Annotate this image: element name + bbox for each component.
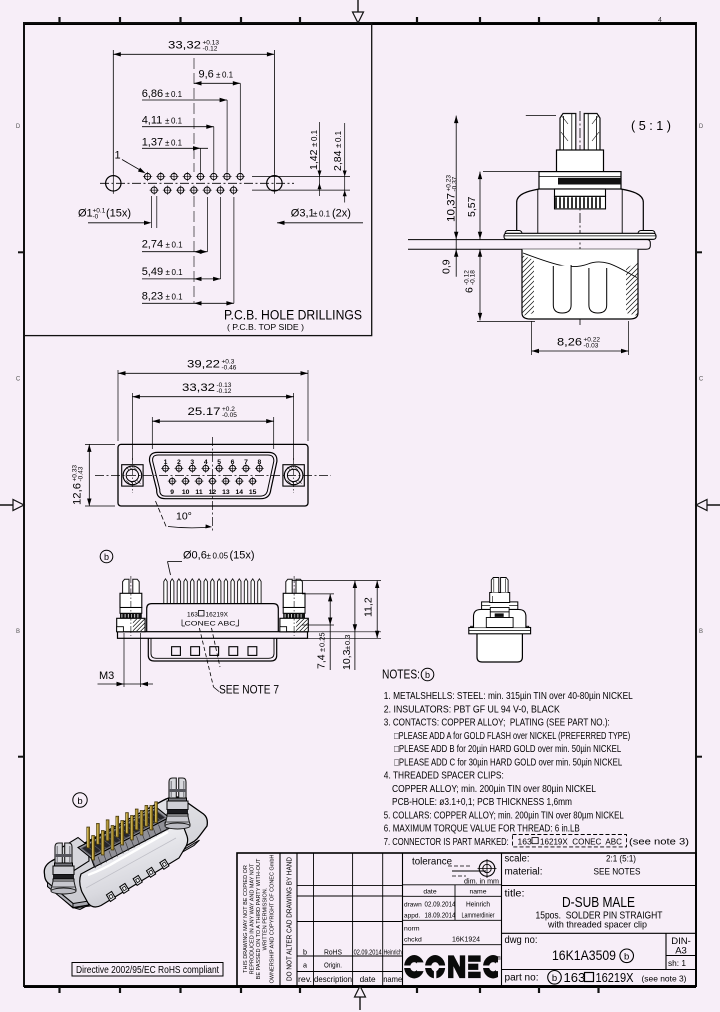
svg-text:±: ± — [207, 552, 212, 561]
svg-text:9: 9 — [170, 489, 174, 496]
svg-text:4: 4 — [658, 17, 662, 24]
svg-text:OWNERSHIP AND COPYRIGHT OF CON: OWNERSHIP AND COPYRIGHT OF CONEC GmbH — [270, 855, 276, 984]
svg-text:6: 6 — [231, 459, 235, 466]
svg-text:4,11: 4,11 — [142, 115, 163, 127]
svg-text:2,74: 2,74 — [142, 239, 163, 251]
svg-text:02.09.2014: 02.09.2014 — [354, 948, 382, 957]
svg-text:39,22: 39,22 — [187, 359, 220, 371]
svg-text:±: ± — [165, 90, 170, 99]
svg-text:1: 1 — [164, 459, 168, 466]
svg-text:A3: A3 — [675, 946, 687, 957]
svg-text:-0.46: -0.46 — [222, 364, 237, 371]
svg-text:15: 15 — [249, 489, 257, 496]
svg-text:25.17: 25.17 — [188, 406, 221, 418]
svg-text:(2x): (2x) — [332, 208, 351, 220]
svg-text:163: 163 — [518, 836, 532, 846]
svg-text:Lammerdinier: Lammerdinier — [462, 913, 496, 920]
svg-text:18.09.2014: 18.09.2014 — [425, 913, 456, 920]
svg-text:Heinrich: Heinrich — [384, 948, 402, 957]
svg-text:5,57: 5,57 — [466, 196, 478, 217]
svg-text:a: a — [303, 961, 307, 970]
svg-text:11,2: 11,2 — [363, 597, 375, 617]
svg-text:RoHS: RoHS — [324, 948, 342, 957]
svg-text:chckd: chckd — [404, 937, 422, 944]
svg-text:±: ± — [310, 142, 319, 147]
svg-text:□PLEASE ADD B for 20µin HARD G: □PLEASE ADD B for 20µin HARD GOLD over m… — [394, 744, 621, 755]
svg-text:14: 14 — [235, 489, 243, 496]
svg-text:title:: title: — [505, 889, 525, 900]
svg-text:0.1: 0.1 — [334, 130, 343, 142]
svg-text:13: 13 — [222, 489, 230, 496]
svg-text:±: ± — [166, 268, 171, 277]
svg-text:0.1: 0.1 — [172, 292, 184, 301]
svg-text:5: 5 — [217, 459, 221, 466]
svg-text:02.09.2014: 02.09.2014 — [425, 902, 456, 909]
svg-text:BE PASSED ON TO A THIRD PARTY: BE PASSED ON TO A THIRD PARTY WITH-OUT — [256, 858, 262, 979]
svg-text:163: 163 — [187, 612, 198, 619]
svg-text:dwg no:: dwg no: — [505, 935, 538, 946]
svg-text:-0.03: -0.03 — [584, 342, 599, 349]
svg-text:8,26: 8,26 — [557, 337, 582, 349]
svg-text:CONEC ABC: CONEC ABC — [185, 620, 236, 627]
svg-text:2: 2 — [177, 459, 181, 466]
svg-text:±: ± — [165, 139, 170, 148]
svg-text:drawn: drawn — [404, 902, 422, 909]
svg-text:6: 6 — [464, 287, 476, 293]
svg-text:10,37: 10,37 — [446, 193, 458, 222]
svg-text:5. COLLARS: COPPER ALLOY; min.: 5. COLLARS: COPPER ALLOY; min. 200µin TI… — [384, 810, 624, 821]
svg-text:date: date — [360, 974, 376, 984]
svg-text:±: ± — [166, 241, 171, 250]
svg-text:Origin.: Origin. — [324, 961, 342, 970]
svg-text:12: 12 — [209, 489, 217, 496]
svg-text:7: 7 — [244, 459, 248, 466]
svg-text:0,9: 0,9 — [441, 259, 453, 274]
svg-text:-0.43: -0.43 — [77, 466, 84, 481]
svg-text:C: C — [699, 377, 704, 383]
svg-text:16K1924: 16K1924 — [452, 937, 480, 944]
svg-text:±: ± — [343, 646, 352, 650]
svg-text:□PLEASE ADD C for 30µin HARD G: □PLEASE ADD C for 30µin HARD GOLD over m… — [394, 757, 622, 768]
svg-text:(see note 3): (see note 3) — [642, 975, 687, 984]
svg-text:0.1: 0.1 — [222, 71, 234, 80]
svg-text:12,6: 12,6 — [72, 483, 84, 505]
svg-text:0.25: 0.25 — [318, 632, 327, 647]
svg-text:®: ® — [497, 955, 501, 962]
svg-text:7,4: 7,4 — [316, 654, 328, 669]
svg-text:0.3: 0.3 — [343, 635, 352, 645]
svg-text:-0: -0 — [93, 213, 99, 220]
svg-text:±: ± — [318, 648, 327, 652]
svg-text:0.1: 0.1 — [310, 129, 319, 141]
svg-text:0.1: 0.1 — [171, 139, 183, 148]
svg-text:±: ± — [313, 210, 318, 219]
svg-text:THIS DRAWING MAY NOT BE COPIED: THIS DRAWING MAY NOT BE COPIED OR — [243, 865, 249, 973]
svg-text:10,3: 10,3 — [341, 649, 353, 670]
svg-text:name: name — [469, 889, 486, 896]
svg-text:B: B — [699, 629, 703, 635]
svg-text:b: b — [303, 948, 307, 957]
svg-text:33,32: 33,32 — [182, 382, 215, 394]
svg-text:0.1: 0.1 — [172, 241, 184, 250]
svg-text:-0.05: -0.05 — [222, 412, 237, 419]
svg-text:B: B — [16, 629, 20, 635]
svg-text:appd.: appd. — [404, 913, 420, 920]
svg-text:0.1: 0.1 — [171, 90, 183, 99]
svg-text:scale:: scale: — [505, 854, 530, 865]
svg-text:(15x): (15x) — [106, 208, 131, 220]
svg-text:NOTES:: NOTES: — [382, 667, 420, 682]
svg-text:2,84: 2,84 — [332, 150, 344, 171]
svg-text:Heinrich: Heinrich — [466, 902, 490, 909]
svg-text:-0.18: -0.18 — [469, 270, 476, 285]
svg-text:±: ± — [216, 71, 221, 80]
svg-text:Ø1: Ø1 — [78, 208, 93, 220]
svg-text:2. INSULATORS: PBT GF UL 94 V-: 2. INSULATORS: PBT GF UL 94 V-0, BLACK — [384, 704, 560, 715]
svg-text:b: b — [425, 670, 430, 680]
svg-text:9,6: 9,6 — [199, 69, 214, 81]
svg-text:part no:: part no: — [505, 973, 539, 984]
svg-text:3: 3 — [190, 459, 194, 466]
svg-text:date: date — [423, 889, 436, 896]
svg-text:16K1A3509: 16K1A3509 — [552, 948, 616, 963]
svg-text:4. THREADED SPACER CLIPS:: 4. THREADED SPACER CLIPS: — [384, 771, 504, 782]
svg-text:dim. in mm: dim. in mm — [464, 877, 499, 886]
svg-text:D: D — [16, 124, 21, 130]
svg-text:0.1: 0.1 — [319, 210, 331, 219]
svg-text:0.1: 0.1 — [171, 117, 183, 126]
svg-text:b: b — [624, 952, 629, 963]
svg-text:(see note 3): (see note 3) — [629, 837, 689, 847]
svg-text:11: 11 — [195, 489, 202, 496]
svg-text:6,86: 6,86 — [142, 88, 163, 100]
svg-text:163: 163 — [564, 970, 586, 985]
svg-text:8,23: 8,23 — [142, 290, 163, 302]
svg-text:33,32: 33,32 — [168, 40, 201, 52]
svg-text:±: ± — [165, 117, 170, 126]
svg-text:( P.C.B. TOP SIDE ): ( P.C.B. TOP SIDE ) — [227, 323, 304, 332]
svg-text:DO NOT ALTER CAD DRAWING BY HA: DO NOT ALTER CAD DRAWING BY HAND — [284, 857, 293, 981]
svg-text:2:1 (5:1): 2:1 (5:1) — [606, 854, 636, 864]
svg-text:C: C — [16, 377, 21, 383]
svg-text:±: ± — [166, 292, 171, 301]
svg-text:name: name — [383, 974, 402, 984]
svg-text:16219X: 16219X — [206, 612, 229, 619]
svg-text:0.05: 0.05 — [213, 552, 229, 561]
svg-text:10: 10 — [182, 489, 190, 496]
svg-text:1. METALSHELLS: STEEL: min. 31: 1. METALSHELLS: STEEL: min. 315µin TIN o… — [384, 691, 633, 702]
svg-text:rev.: rev. — [298, 974, 312, 984]
svg-text:norm: norm — [404, 926, 420, 933]
svg-text:WRITTEN PERMISSION.: WRITTEN PERMISSION. — [263, 887, 269, 950]
svg-text:tolerance: tolerance — [412, 856, 452, 868]
svg-text:16219X CONEC ABC: 16219X CONEC ABC — [540, 836, 622, 846]
svg-text:b: b — [104, 552, 109, 562]
svg-text:5,49: 5,49 — [142, 266, 163, 278]
svg-text:M3: M3 — [99, 670, 114, 682]
svg-text:COPPER ALLOY; min. 200µin TIN: COPPER ALLOY; min. 200µin TIN over 80µin… — [392, 784, 596, 795]
svg-text:PCB-HOLE: ø3.1+0,1; PCB THICKN: PCB-HOLE: ø3.1+0,1; PCB THICKNESS 1,6mm — [392, 797, 572, 808]
svg-text:1,42: 1,42 — [308, 149, 320, 170]
svg-text:description: description — [314, 974, 352, 984]
svg-text:material:: material: — [505, 867, 543, 878]
svg-text:b: b — [552, 973, 557, 984]
svg-text:-0.12: -0.12 — [217, 388, 232, 395]
svg-text:(15x): (15x) — [230, 550, 255, 562]
svg-text:P.C.B. HOLE DRILLINGS: P.C.B. HOLE DRILLINGS — [224, 308, 362, 323]
svg-text:□PLEASE ADD A for GOLD FLASH o: □PLEASE ADD A for GOLD FLASH over NICKEL… — [394, 731, 630, 742]
svg-text:8: 8 — [258, 459, 262, 466]
svg-text:4: 4 — [204, 459, 208, 466]
svg-text:( 5 : 1 ): ( 5 : 1 ) — [631, 118, 671, 133]
svg-text:REPRODUCED IN ANY WAY AND MAY: REPRODUCED IN ANY WAY AND MAY NOT — [250, 863, 256, 974]
svg-text:3. CONTACTS: COPPER ALLOY; PL: 3. CONTACTS: COPPER ALLOY; PLATING (SEE … — [384, 718, 610, 729]
svg-text:D: D — [699, 124, 704, 130]
svg-text:16219X: 16219X — [596, 970, 634, 985]
svg-text:7. CONNECTOR IS PART MARKED:: 7. CONNECTOR IS PART MARKED: — [384, 837, 509, 848]
svg-text:Ø3,1: Ø3,1 — [291, 208, 315, 220]
svg-text:SEE NOTES: SEE NOTES — [594, 867, 641, 877]
svg-text:b: b — [77, 796, 82, 807]
svg-text:0.1: 0.1 — [172, 268, 184, 277]
svg-text:-0.37: -0.37 — [451, 176, 458, 191]
svg-text:sh: 1: sh: 1 — [668, 958, 686, 968]
svg-text:SEE NOTE 7: SEE NOTE 7 — [219, 685, 279, 697]
svg-text:1: 1 — [115, 150, 121, 162]
svg-text:with threaded spacer clip: with threaded spacer clip — [547, 920, 647, 931]
svg-text:6. MAXIMUM TORQUE VALUE FOR TH: 6. MAXIMUM TORQUE VALUE FOR THREAD: 6 in… — [384, 824, 580, 835]
svg-text:1,37: 1,37 — [142, 137, 163, 149]
svg-text:±: ± — [334, 143, 343, 148]
svg-text:10°: 10° — [176, 511, 192, 523]
svg-text:Ø0,6: Ø0,6 — [183, 550, 207, 562]
svg-text:Directive 2002/95/EC RoHS comp: Directive 2002/95/EC RoHS compliant — [76, 965, 219, 976]
svg-text:-0.12: -0.12 — [203, 45, 218, 52]
